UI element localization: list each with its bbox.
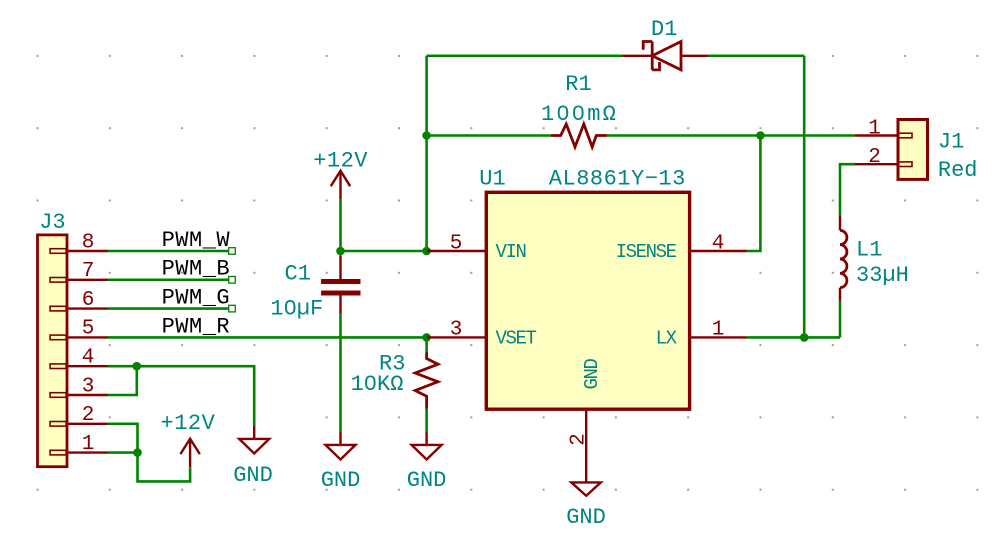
svg-text:2: 2: [568, 433, 591, 446]
dangling square PWM_W: [229, 248, 236, 255]
wire VSET junction to R3: [425, 337, 428, 352]
wire right vertical to LX row: [803, 56, 806, 338]
wire L1 to LX row: [839, 301, 842, 338]
svg-text:GND: GND: [407, 468, 447, 493]
wire J3 pin2: [108, 424, 138, 453]
junction (136.8,366.2): [133, 362, 142, 371]
wire VIN row: [341, 250, 427, 253]
wire top-left horizontal: [427, 54, 623, 57]
J1 pin 1: [855, 117, 912, 140]
J3 pin 7: [50, 260, 108, 283]
junction (137.5,452.6): [133, 448, 142, 457]
resistor R1: [541, 72, 618, 147]
wire J3 pin1 to +12V: [108, 453, 190, 482]
svg-text:GND: GND: [566, 505, 606, 530]
svg-text:10µF: 10µF: [270, 297, 323, 322]
wire PWM_B: [108, 278, 232, 281]
J3 pin 3: [50, 375, 108, 398]
wire J1 pin2 to L1: [840, 164, 855, 216]
svg-text:10KΩ: 10KΩ: [351, 372, 404, 397]
junction (340.5,251): [336, 247, 345, 256]
svg-text:D1: D1: [651, 17, 677, 42]
svg-text:AL8861Y−13: AL8861Y−13: [549, 166, 686, 191]
wire R3 to GND: [425, 409, 428, 433]
J3 pin 2: [50, 404, 108, 427]
svg-text:J3: J3: [39, 210, 65, 235]
svg-text:+12V: +12V: [161, 411, 216, 436]
ground GND below U1: [566, 482, 606, 530]
U1 pin 5 VIN: [427, 232, 526, 263]
IC U1 body: [486, 192, 689, 409]
svg-text:L1: L1: [856, 237, 882, 262]
dangling square PWM_B: [229, 277, 236, 284]
svg-text:VIN: VIN: [496, 241, 526, 263]
svg-text:+12V: +12V: [313, 148, 368, 173]
svg-text:1: 1: [82, 433, 95, 456]
wire left vertical: [425, 56, 428, 251]
svg-text:GND: GND: [233, 463, 273, 488]
connector J1 body: [898, 120, 928, 180]
svg-text:7: 7: [82, 260, 95, 283]
wire PWM_G: [108, 307, 232, 310]
wire R1 right to J1 pin1: [607, 134, 855, 137]
diode D1: [622, 17, 708, 70]
wire LX row: [747, 336, 840, 339]
svg-text:8: 8: [82, 231, 95, 254]
J3 pin 6: [50, 289, 108, 312]
svg-text:PWM_W: PWM_W: [162, 228, 231, 253]
svg-text:VSET: VSET: [496, 327, 537, 349]
svg-text:6: 6: [82, 289, 95, 312]
svg-text:3: 3: [450, 319, 463, 342]
U1 pin 1 LX: [656, 319, 747, 350]
U1 pin 4 ISENSE: [616, 232, 747, 263]
svg-text:3: 3: [82, 375, 95, 398]
ground GND below R3: [407, 432, 447, 493]
junction (426.6,135.5): [422, 131, 431, 140]
svg-text:33µH: 33µH: [856, 263, 909, 288]
ground GND near J3: [233, 426, 273, 488]
wire top-right horizontal: [708, 54, 804, 57]
power +12V near J3: [161, 411, 216, 467]
svg-text:4: 4: [82, 347, 95, 370]
svg-text:GND: GND: [581, 359, 603, 390]
svg-text:1: 1: [868, 117, 881, 140]
J3 pin 5: [50, 318, 108, 341]
J3 pin 4: [50, 347, 108, 370]
power +12V near C1: [313, 148, 368, 199]
inductor L1: [840, 216, 909, 301]
svg-text:ISENSE: ISENSE: [616, 241, 677, 263]
wire ISENSE riser: [747, 136, 761, 252]
wire C1 to GND: [339, 314, 342, 432]
junction (426.6,251): [422, 247, 431, 256]
wire PWM_R long: [108, 336, 427, 339]
svg-text:PWM_G: PWM_G: [162, 286, 231, 311]
junction (426.6,337.4): [422, 333, 431, 342]
svg-text:1: 1: [712, 319, 725, 342]
J1 pin 2: [855, 146, 912, 169]
svg-text:Red: Red: [938, 158, 978, 183]
svg-text:LX: LX: [656, 327, 678, 349]
svg-text:5: 5: [82, 318, 95, 341]
wire J3 pin4 to GND: [108, 366, 254, 426]
J3 pin 8: [50, 231, 108, 254]
wire +12V to junction: [339, 199, 342, 251]
svg-text:2: 2: [868, 146, 881, 169]
svg-text:5: 5: [450, 232, 463, 255]
U1 pin 3 VSET: [427, 319, 537, 350]
svg-text:GND: GND: [321, 468, 361, 493]
svg-text:U1: U1: [479, 166, 505, 191]
connector J3 body: [38, 235, 68, 467]
grid dots (decorative): [37, 55, 979, 491]
svg-text:R1: R1: [565, 72, 591, 97]
J3 pin 1: [50, 433, 108, 456]
svg-text:C1: C1: [285, 261, 311, 286]
resistor R3: [351, 352, 438, 409]
svg-text:J1: J1: [938, 129, 964, 154]
U1 pin 2 GND: [568, 359, 604, 483]
capacitor C1: [270, 255, 360, 321]
ground GND below C1: [321, 432, 361, 493]
dangling square PWM_G: [229, 305, 236, 312]
svg-text:PWM_R: PWM_R: [162, 314, 231, 339]
svg-text:2: 2: [82, 404, 95, 427]
svg-text:4: 4: [712, 232, 725, 255]
junction (804.2,337.4): [800, 333, 809, 342]
wire PWM_W: [108, 250, 232, 253]
svg-text:PWM_B: PWM_B: [162, 257, 231, 282]
wire R1 left: [427, 134, 551, 137]
junction (760.4,135.5): [756, 131, 765, 140]
wire J3 pin3: [108, 366, 137, 395]
